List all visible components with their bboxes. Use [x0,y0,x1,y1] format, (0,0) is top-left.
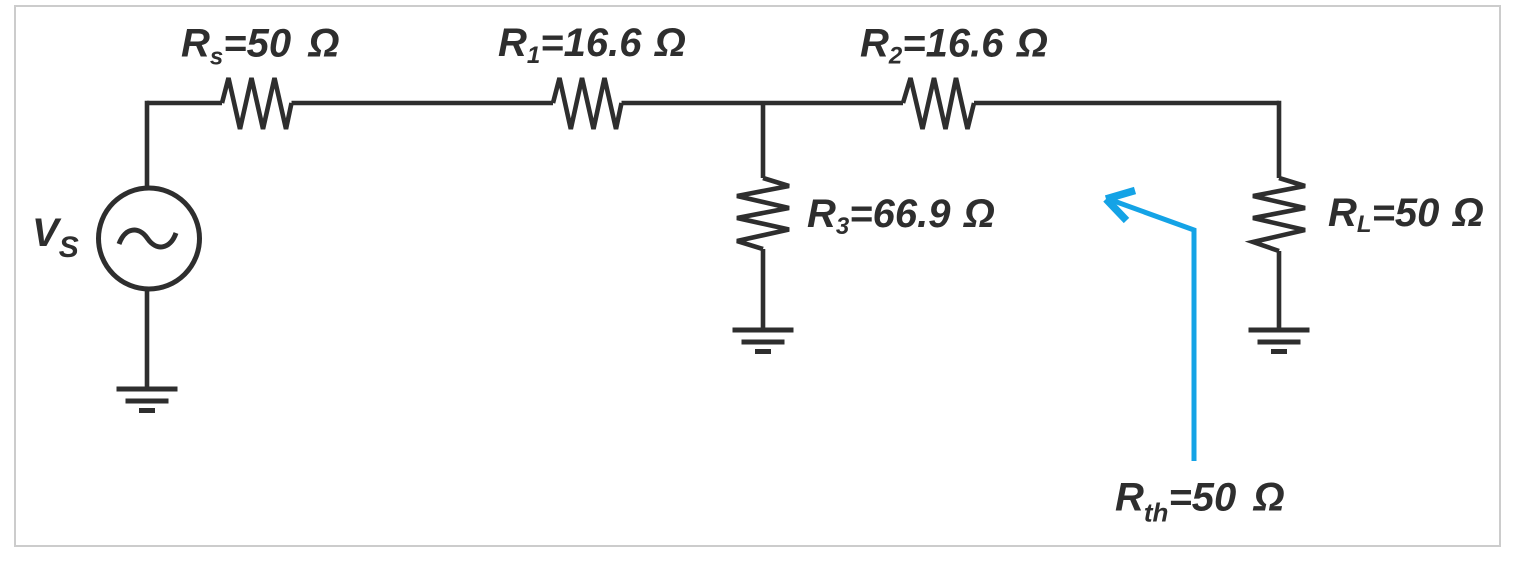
svg-text:R2=16.6 Ω: R2=16.6 Ω [860,22,1048,70]
svg-text:R3=66.9 Ω: R3=66.9 Ω [807,192,995,240]
svg-text:VS: VS [32,211,79,264]
svg-text:R1=16.6 Ω: R1=16.6 Ω [498,21,686,69]
svg-text:Rs=50 Ω: Rs=50 Ω [181,22,339,71]
svg-text:RL=50 Ω: RL=50 Ω [1328,191,1484,238]
svg-text:Rth=50 Ω: Rth=50 Ω [1115,476,1285,528]
